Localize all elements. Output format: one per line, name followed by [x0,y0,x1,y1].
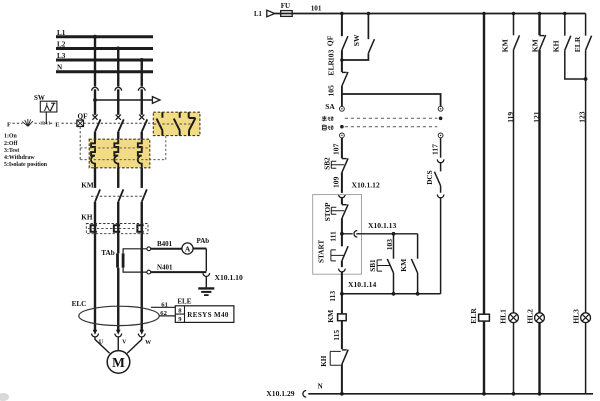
svg-text:103: 103 [326,49,335,61]
wire to ground [205,276,207,287]
svg-text:KM: KM [399,259,408,272]
wire dashed KM linkage [91,195,145,197]
svg-text:DCS: DCS [426,170,434,184]
contactor KM pole3 contact [142,189,147,202]
label auto (self) [322,124,333,130]
svg-text:X10.1.13: X10.1.13 [368,221,396,230]
wire pole3 to KH [141,202,143,224]
svg-text:V: V [122,340,127,346]
contactor KM pole1 contact [95,189,100,202]
bus N [56,70,153,73]
svg-text:ELE: ELE [177,298,191,306]
svg-text:121: 121 [532,111,541,123]
svg-text:119: 119 [506,112,515,123]
junction dot node 111 [340,232,344,236]
svg-text:QF: QF [326,35,335,46]
wire pole1 to release [94,132,96,139]
svg-text:109: 109 [332,176,341,188]
wire dashed trip link inside box [90,147,150,149]
svg-text:HL3: HL3 [572,309,581,324]
wire pole2 to release [117,132,119,139]
svg-text:107: 107 [331,143,340,155]
svg-text:103: 103 [385,239,394,251]
svg-text:B401: B401 [157,240,173,248]
junction dot L2/pole2 [116,47,120,51]
svg-text:N: N [57,64,63,72]
svg-text:111: 111 [328,231,337,242]
svg-text:117: 117 [431,144,440,155]
breaker QF trip-unit highlight box [89,139,150,168]
svg-text:X10.1.12: X10.1.12 [352,181,380,190]
svg-text:TAb: TAb [101,249,114,257]
wire dashed QF link vertical [79,127,81,160]
svg-text:5:Isolate position: 5:Isolate position [4,162,48,168]
junction dot withdraw line [93,98,97,102]
bus L2 [56,47,153,50]
svg-text:SB2: SB2 [324,157,332,170]
svg-text:QF: QF [78,112,89,120]
svg-text:SA: SA [325,102,335,111]
breaker release element pole1 [91,139,95,168]
breaker QF pole3 contact [139,115,144,120]
svg-text:X10.1.14: X10.1.14 [348,280,376,289]
breaker QF operator box [77,120,84,126]
wire dashed trip link upper [80,147,149,149]
terminal circle N401 [147,270,151,274]
wire pole3 to release [141,132,143,139]
svg-text:HL2: HL2 [525,309,534,324]
junction dot L3/pole3 [140,58,144,62]
motor M [107,351,130,374]
svg-text:KM: KM [326,310,335,323]
wire V lead [117,337,119,351]
svg-text:1:On: 1:On [4,134,17,140]
SA position manual dashed row [345,117,438,119]
earth-leakage CT ELC ellipse [79,306,159,325]
terminal DCS lower [437,195,444,198]
svg-text:X10.1.10: X10.1.10 [215,273,243,282]
contactor KM pole2 contact [118,189,123,202]
wire W lead [127,337,142,353]
terminal X10.1.13 [342,233,353,235]
wire dashed KH linkage [88,228,146,230]
wire 103 branch [393,234,395,259]
terminal 117 upper [437,159,444,162]
label manual (hand) [322,116,333,121]
svg-text:113: 113 [328,291,337,302]
svg-text:L3: L3 [57,52,66,60]
wire pole1 to motor [94,234,96,331]
breaker release element pole3 [138,139,142,168]
breaker QF aux-contact highlight box [153,112,200,135]
wire dashed aux link vertical [165,136,167,160]
wire ammeter to ground [193,248,206,250]
drawout connector pole1 [92,87,99,90]
svg-text:START: START [318,240,326,263]
local pushbutton box (dashed) [313,195,362,275]
svg-text:HL1: HL1 [499,309,508,324]
wire pole3 pin [141,89,143,115]
wire pole2 pin [117,89,119,115]
QF aux contact 3 [189,112,196,135]
svg-text:ELR: ELR [573,36,582,52]
svg-text:RESYS M40: RESYS M40 [187,311,229,319]
svg-text:3:Test: 3:Test [4,148,19,154]
thermal relay KH element pole3 [137,225,143,232]
wire withdraw direction line [95,99,152,101]
wire pole1 upper [94,37,96,87]
ground [198,287,214,289]
svg-text:1B4/1: 1B4/1 [40,121,51,126]
thermal relay KH element pole1 [91,225,97,232]
wire pole1 KH through [94,224,96,234]
breaker QF pole2 contact [116,115,121,120]
wire X10.1.13 rail [356,233,417,235]
wire SW stem [45,112,47,123]
svg-text:KH: KH [552,40,561,52]
svg-text:M: M [112,355,125,370]
QF aux contact 2 [174,112,180,135]
wire CT secondary lower [123,268,147,272]
wire pole3 to motor [141,234,143,331]
bus L3 [56,59,153,62]
junction dot L1/pole1 [93,35,97,39]
svg-text:ELR: ELR [326,59,335,75]
svg-text:L1: L1 [254,11,263,18]
svg-text:KH: KH [320,355,328,367]
drawout connector pole2 [115,87,122,90]
wire N rail [308,393,593,395]
wire pole2 upper [117,49,119,87]
svg-text:L2: L2 [57,41,66,49]
svg-text:101: 101 [311,4,322,12]
wire CT secondary upper [123,249,147,254]
svg-text:115: 115 [332,330,341,341]
wire pole1 pin [94,89,96,115]
SA position auto dashed row [345,126,438,128]
wire U lead [95,337,110,353]
motor terminal U [93,330,98,335]
QF aux contact 1 [157,112,163,135]
terminal X10.1.10 [203,273,210,276]
wire dashed trip link lower [80,159,166,161]
wire pole2 to CT [117,234,119,331]
svg-text:KM: KM [501,39,510,52]
position indicator fan [22,119,33,126]
contact KM seal-in (NO) [417,234,419,259]
motor terminal V [116,330,121,335]
coil ELR column [483,14,485,315]
motor terminal W [139,330,144,335]
svg-text:4:Withdraw: 4:Withdraw [4,155,35,161]
svg-text:2:Off: 2:Off [4,141,18,147]
current transformer TAb bars [116,253,119,267]
svg-text:105: 105 [327,85,336,97]
bus L1 [56,35,153,38]
wire pole3 upper [141,60,143,87]
wire pole2 to KM [117,168,119,188]
svg-text:123: 123 [578,111,587,123]
svg-text:A: A [185,244,191,253]
thermal relay KH element pole2 [114,225,120,232]
relay ELE RESYS M40 box [175,306,234,323]
terminal X10.1.14 [339,269,346,272]
svg-text:ELC: ELC [72,300,87,308]
svg-text:FU: FU [281,2,290,10]
svg-text:ELR: ELR [469,308,478,324]
wire dashed F-E mechanical link [13,122,77,124]
wire dashed QF link horizontal [84,122,153,124]
svg-text:X10.1.29: X10.1.29 [266,389,294,398]
svg-text:N: N [318,383,323,391]
breaker QF pole1 contact [92,115,97,120]
wire pole3 to KM [141,168,143,188]
svg-text:KH: KH [81,214,93,222]
terminal circle B401 [147,247,151,251]
svg-text:F: F [7,121,11,128]
wire dashed link inside aux box [154,123,191,125]
arrow withdraw direction [152,97,160,104]
decorative corner smudge [0,393,9,401]
svg-text:SW: SW [352,34,361,46]
junction dots top rail [340,12,344,16]
svg-text:SB1: SB1 [369,259,377,272]
svg-text:N401: N401 [157,264,173,272]
drawout connector pole3 [138,87,145,90]
svg-text:L1: L1 [57,29,66,37]
wire pole1 to KH [94,202,96,224]
svg-text:KM: KM [81,181,94,189]
svg-text:PAb: PAb [197,237,210,245]
breaker release element pole2 [114,139,118,168]
svg-text:E: E [55,121,59,128]
thermal relay KH box [86,224,148,234]
svg-text:W: W [145,340,151,346]
wire pole2 to KH [117,202,119,224]
wire pole1 to KM [94,168,96,188]
